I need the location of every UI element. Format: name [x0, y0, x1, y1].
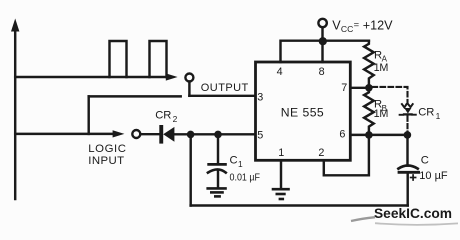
ground (pin 1) [273, 189, 289, 199]
wire: pin 1 down [280, 160, 282, 187]
svg-text:CC: CC [341, 24, 353, 34]
capacitor C [398, 135, 418, 206]
junction dot RB/pin6 [365, 131, 373, 139]
junction dot Vcc [319, 37, 327, 45]
svg-text:C: C [230, 155, 238, 167]
svg-text:=: = [354, 19, 360, 30]
wire: junction A down to bottom rail [189, 134, 191, 205]
junction dot pin7 [365, 84, 373, 92]
wire: input step rising edge [87, 96, 89, 133]
wire: pin 4 up to Vcc rail [281, 41, 323, 62]
watermark swoosh [351, 217, 458, 225]
svg-text:5: 5 [257, 129, 263, 141]
ground (C1) [208, 188, 226, 196]
wire: output terminal stub down [188, 82, 190, 96]
svg-text:10 µF: 10 µF [419, 170, 448, 182]
wire: pin 7 to RA/RB junction [350, 87, 369, 89]
resistor RA [364, 41, 374, 88]
wire: Vcc rail to RA [323, 39, 369, 41]
svg-text:6: 6 [339, 129, 345, 141]
svg-text:CR: CR [418, 106, 434, 118]
svg-text:INPUT: INPUT [88, 155, 124, 167]
label Vcc = +12V [332, 18, 393, 34]
photodiode CR1 [400, 104, 416, 131]
label RB [374, 99, 389, 121]
svg-text:2: 2 [318, 147, 324, 159]
output waveform pulse 2 [150, 41, 167, 77]
label LOGIC INPUT [88, 143, 126, 167]
label CR2 [155, 109, 177, 124]
svg-text:7: 7 [341, 82, 347, 94]
input waveform baseline with arrow [15, 130, 124, 137]
output waveform baseline with arrow [15, 73, 177, 80]
junction dot A (below output terminal) [187, 131, 195, 139]
svg-text:0.01 µF: 0.01 µF [230, 172, 261, 183]
svg-text:2: 2 [173, 114, 178, 124]
wire: CR2 to pin 5 [174, 133, 255, 135]
wire: pin 6 to C junction [350, 134, 407, 136]
wire: input terminal to CR2 [140, 133, 159, 135]
wire: pin 2 loop to pin6 junction [324, 135, 369, 175]
bottom rail wire [191, 204, 408, 207]
waveform vertical axis [11, 19, 19, 200]
svg-text:SeekIC.com: SeekIC.com [374, 206, 452, 221]
plus sign of C [411, 175, 416, 180]
svg-text:3: 3 [257, 91, 263, 103]
svg-text:+12V: +12V [363, 18, 393, 32]
svg-text:1: 1 [278, 147, 284, 159]
label C1 [230, 155, 244, 169]
Vcc terminal circle [318, 19, 326, 27]
wire: output terminal to pin 3 [189, 95, 255, 97]
label RA [374, 49, 389, 74]
label CR1 [418, 106, 440, 121]
svg-text:8: 8 [319, 66, 325, 78]
output terminal circle [185, 74, 193, 82]
junction dot B (C1 tap) [214, 131, 222, 139]
junction dot CR1/C [404, 131, 412, 139]
svg-text:CR: CR [155, 109, 171, 121]
svg-text:1M: 1M [374, 62, 389, 74]
svg-text:1M: 1M [374, 108, 389, 120]
wire: pin 8 / Vcc vertical [321, 27, 323, 62]
op IC U1 NE 555 box [256, 62, 351, 160]
dashed wire: pin 7 junction to CR1 [373, 87, 408, 103]
capacitor C1 [208, 164, 226, 187]
wire: junction B down to C1 [217, 134, 219, 163]
diode CR2 [159, 125, 174, 144]
output waveform pulse 1 [110, 41, 127, 77]
svg-text:C: C [421, 155, 429, 167]
svg-text:1: 1 [238, 159, 243, 169]
logic input terminal circle [132, 130, 140, 138]
svg-text:OUTPUT: OUTPUT [201, 82, 249, 94]
wire: input step high level [89, 95, 181, 97]
svg-text:NE 555: NE 555 [281, 106, 324, 120]
svg-text:1: 1 [436, 111, 441, 121]
svg-text:4: 4 [277, 66, 283, 78]
resistor RB [364, 88, 374, 135]
svg-text:LOGIC: LOGIC [88, 143, 126, 155]
